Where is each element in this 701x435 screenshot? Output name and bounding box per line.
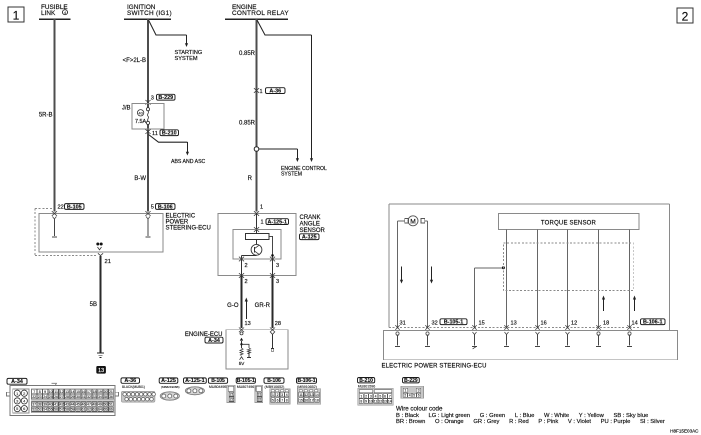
svg-text:14: 14 bbox=[315, 393, 319, 397]
svg-text:6: 6 bbox=[384, 395, 386, 399]
svg-text:12: 12 bbox=[60, 390, 64, 394]
svg-text:A-34: A-34 bbox=[11, 379, 23, 385]
svg-text:4: 4 bbox=[409, 394, 411, 398]
svg-text:14: 14 bbox=[632, 321, 638, 327]
svg-text:LINK: LINK bbox=[41, 10, 56, 17]
svg-text:8: 8 bbox=[286, 399, 288, 403]
svg-text:A-36: A-36 bbox=[269, 88, 281, 94]
svg-text:2: 2 bbox=[365, 395, 367, 399]
svg-text:12: 12 bbox=[571, 321, 577, 327]
svg-text:2: 2 bbox=[682, 9, 689, 23]
svg-text:21: 21 bbox=[105, 259, 111, 265]
svg-text:61: 61 bbox=[82, 408, 86, 412]
svg-text:17: 17 bbox=[87, 390, 91, 394]
svg-text:J/B: J/B bbox=[122, 106, 131, 112]
svg-text:CRANK: CRANK bbox=[300, 215, 321, 221]
svg-text:0.85R: 0.85R bbox=[239, 121, 256, 127]
svg-text:62: 62 bbox=[87, 408, 91, 412]
svg-text:14: 14 bbox=[71, 390, 75, 394]
svg-text:3: 3 bbox=[418, 389, 420, 393]
svg-text:18: 18 bbox=[603, 321, 609, 327]
svg-text:2: 2 bbox=[404, 394, 406, 398]
svg-text:Wire colour code: Wire colour code bbox=[396, 406, 443, 413]
svg-text:2: 2 bbox=[277, 393, 279, 397]
svg-text:8: 8 bbox=[360, 400, 362, 404]
svg-text:16: 16 bbox=[304, 399, 308, 403]
svg-text:B-105: B-105 bbox=[67, 204, 82, 210]
svg-text:11: 11 bbox=[299, 393, 303, 397]
svg-text:44: 44 bbox=[71, 403, 75, 407]
svg-text:25: 25 bbox=[49, 395, 53, 399]
svg-text:30: 30 bbox=[76, 395, 80, 399]
svg-text:M: M bbox=[410, 218, 416, 225]
svg-text:28: 28 bbox=[65, 395, 69, 399]
svg-text:1: 1 bbox=[404, 389, 406, 393]
svg-text:MU804495: MU804495 bbox=[209, 385, 227, 389]
svg-text:60: 60 bbox=[76, 408, 80, 412]
svg-text:B-105: B-105 bbox=[211, 378, 225, 384]
svg-text:13: 13 bbox=[511, 321, 517, 327]
svg-text:7: 7 bbox=[389, 395, 391, 399]
svg-text:ANGLE: ANGLE bbox=[300, 221, 320, 227]
svg-text:SENSOR: SENSOR bbox=[300, 228, 326, 234]
svg-text:45: 45 bbox=[76, 403, 80, 407]
svg-text:32: 32 bbox=[87, 395, 91, 399]
svg-text:13: 13 bbox=[383, 400, 387, 404]
svg-text:11: 11 bbox=[374, 400, 378, 404]
svg-text:A-125-1: A-125-1 bbox=[185, 378, 204, 384]
svg-text:9: 9 bbox=[44, 390, 46, 394]
svg-text:31: 31 bbox=[258, 393, 262, 397]
svg-text:7: 7 bbox=[281, 399, 283, 403]
svg-text:17: 17 bbox=[310, 399, 314, 403]
svg-text:58: 58 bbox=[65, 408, 69, 412]
svg-text:63: 63 bbox=[93, 408, 97, 412]
svg-text:15: 15 bbox=[299, 399, 303, 403]
svg-text:6: 6 bbox=[418, 394, 420, 398]
svg-text:CONTROL RELAY: CONTROL RELAY bbox=[232, 10, 289, 17]
svg-text:6: 6 bbox=[277, 399, 279, 403]
svg-text:21: 21 bbox=[109, 390, 113, 394]
svg-text:64: 64 bbox=[98, 408, 102, 412]
svg-text:32: 32 bbox=[432, 321, 438, 327]
svg-text:16: 16 bbox=[82, 390, 86, 394]
svg-text:B-210: B-210 bbox=[162, 130, 177, 136]
svg-text:3: 3 bbox=[276, 279, 279, 285]
svg-text:B : Black LG : Light gree: B : Black LG : Light green G : Green L :… bbox=[396, 413, 648, 419]
svg-text:43: 43 bbox=[65, 403, 69, 407]
svg-text:46: 46 bbox=[82, 403, 86, 407]
svg-text:B-106: B-106 bbox=[158, 204, 173, 210]
svg-text:32: 32 bbox=[258, 398, 262, 402]
svg-text:15: 15 bbox=[479, 321, 485, 327]
svg-text:22: 22 bbox=[230, 398, 234, 402]
svg-text:R: R bbox=[248, 176, 253, 182]
svg-text:B-210: B-210 bbox=[359, 378, 373, 384]
svg-text:11: 11 bbox=[54, 390, 58, 394]
svg-text:B-106-1: B-106-1 bbox=[643, 319, 662, 325]
svg-text:42: 42 bbox=[60, 403, 64, 407]
svg-text:B-W: B-W bbox=[134, 176, 146, 182]
svg-text:1: 1 bbox=[272, 393, 274, 397]
svg-text:51: 51 bbox=[109, 403, 113, 407]
svg-text:22: 22 bbox=[32, 395, 36, 399]
svg-text:BR : Brown O : Orange: BR : Brown O : Orange GR : Grey R : Red … bbox=[396, 419, 665, 425]
svg-text:31: 31 bbox=[400, 321, 406, 327]
svg-text:13: 13 bbox=[65, 390, 69, 394]
svg-text:2: 2 bbox=[245, 263, 248, 269]
svg-text:3: 3 bbox=[281, 393, 283, 397]
svg-text:12: 12 bbox=[304, 393, 308, 397]
svg-text:41: 41 bbox=[54, 403, 58, 407]
svg-text:53: 53 bbox=[38, 408, 42, 412]
svg-text:3: 3 bbox=[370, 395, 372, 399]
svg-text:15: 15 bbox=[76, 390, 80, 394]
svg-text:34: 34 bbox=[98, 395, 102, 399]
svg-text:57: 57 bbox=[60, 408, 64, 412]
svg-text:B-106: B-106 bbox=[267, 378, 281, 384]
svg-text:B-229: B-229 bbox=[158, 95, 173, 101]
svg-text:1: 1 bbox=[360, 395, 362, 399]
svg-text:7.5A: 7.5A bbox=[135, 119, 146, 125]
svg-text:37: 37 bbox=[32, 403, 36, 407]
svg-text:29: 29 bbox=[71, 395, 75, 399]
svg-text:14: 14 bbox=[388, 400, 392, 404]
svg-text:23: 23 bbox=[38, 395, 42, 399]
svg-text:21: 21 bbox=[230, 393, 234, 397]
svg-text:<F>2L-B: <F>2L-B bbox=[123, 58, 146, 64]
svg-text:10: 10 bbox=[369, 400, 373, 404]
svg-text:8: 8 bbox=[39, 390, 41, 394]
svg-text:B-105-1: B-105-1 bbox=[237, 378, 255, 384]
svg-text:27: 27 bbox=[60, 395, 64, 399]
svg-text:1: 1 bbox=[261, 220, 264, 226]
svg-text:4: 4 bbox=[286, 393, 288, 397]
svg-text:52: 52 bbox=[32, 408, 36, 412]
svg-text:50: 50 bbox=[103, 403, 107, 407]
svg-text:55: 55 bbox=[49, 408, 53, 412]
svg-text:7: 7 bbox=[33, 390, 35, 394]
svg-text:22: 22 bbox=[58, 204, 64, 210]
svg-text:66: 66 bbox=[109, 408, 113, 412]
svg-text:5: 5 bbox=[272, 399, 274, 403]
svg-text:SYSTEM: SYSTEM bbox=[175, 56, 198, 62]
svg-text:5: 5 bbox=[379, 395, 381, 399]
svg-text:4: 4 bbox=[375, 395, 377, 399]
svg-text:12: 12 bbox=[378, 400, 382, 404]
svg-text:5: 5 bbox=[151, 204, 154, 210]
svg-text:13: 13 bbox=[310, 393, 314, 397]
svg-text:(MB821906B): (MB821906B) bbox=[161, 385, 180, 389]
svg-text:1: 1 bbox=[13, 8, 20, 22]
svg-text:B-106-1: B-106-1 bbox=[297, 378, 315, 384]
svg-text:A-34: A-34 bbox=[208, 338, 220, 344]
svg-text:48: 48 bbox=[93, 403, 97, 407]
svg-text:35: 35 bbox=[103, 395, 107, 399]
svg-text:3: 3 bbox=[151, 95, 154, 101]
svg-text:9: 9 bbox=[365, 400, 367, 404]
svg-text:40: 40 bbox=[49, 403, 53, 407]
svg-text:GR-R: GR-R bbox=[255, 303, 271, 309]
svg-text:18: 18 bbox=[315, 399, 319, 403]
svg-text:SWITCH (IG1): SWITCH (IG1) bbox=[127, 10, 172, 17]
svg-text:STEERING-ECU: STEERING-ECU bbox=[166, 225, 211, 231]
svg-text:56: 56 bbox=[54, 408, 58, 412]
svg-text:1: 1 bbox=[260, 204, 263, 210]
svg-text:10: 10 bbox=[49, 390, 53, 394]
svg-text:5R-B: 5R-B bbox=[39, 113, 53, 119]
svg-text:11: 11 bbox=[152, 131, 158, 137]
svg-text:A-36: A-36 bbox=[124, 378, 136, 384]
svg-text:MU807496: MU807496 bbox=[237, 385, 255, 389]
svg-text:47: 47 bbox=[87, 403, 91, 407]
svg-text:31: 31 bbox=[82, 395, 86, 399]
svg-text:38: 38 bbox=[38, 403, 42, 407]
svg-text:19: 19 bbox=[98, 390, 102, 394]
svg-text:SYSTEM: SYSTEM bbox=[281, 172, 302, 178]
svg-text:A-125: A-125 bbox=[161, 378, 176, 384]
svg-text:3: 3 bbox=[276, 263, 279, 269]
svg-text:0.85R: 0.85R bbox=[239, 51, 256, 57]
svg-text:59: 59 bbox=[71, 408, 75, 412]
svg-text:20: 20 bbox=[103, 390, 107, 394]
svg-text:24: 24 bbox=[43, 395, 47, 399]
svg-text:5V: 5V bbox=[239, 361, 246, 366]
svg-text:16: 16 bbox=[541, 321, 547, 327]
svg-text:G-O: G-O bbox=[227, 303, 239, 309]
svg-text:A-125-1: A-125-1 bbox=[268, 219, 287, 225]
svg-text:H8F15E03AC: H8F15E03AC bbox=[670, 429, 699, 434]
svg-text:ELECTRIC POWER STEERING-ECU: ELECTRIC POWER STEERING-ECU bbox=[382, 363, 487, 369]
svg-text:B-105-1: B-105-1 bbox=[444, 319, 463, 325]
svg-text:A-125: A-125 bbox=[302, 234, 317, 240]
svg-text:5B: 5B bbox=[90, 302, 97, 308]
svg-text:18: 18 bbox=[93, 390, 97, 394]
svg-text:39: 39 bbox=[43, 403, 47, 407]
svg-text:65: 65 bbox=[103, 408, 107, 412]
svg-text:1: 1 bbox=[260, 89, 263, 95]
svg-text:13: 13 bbox=[98, 368, 104, 374]
svg-text:2: 2 bbox=[245, 279, 248, 285]
svg-text:49: 49 bbox=[98, 403, 102, 407]
svg-text:36: 36 bbox=[109, 395, 113, 399]
svg-text:26: 26 bbox=[54, 395, 58, 399]
svg-text:B-229: B-229 bbox=[404, 378, 418, 384]
svg-text:54: 54 bbox=[43, 408, 47, 412]
svg-text:TORQUE SENSOR: TORQUE SENSOR bbox=[541, 220, 597, 226]
svg-text:ABS AND ASC: ABS AND ASC bbox=[171, 159, 206, 165]
svg-text:BLACK(MU801): BLACK(MU801) bbox=[122, 385, 145, 389]
svg-text:33: 33 bbox=[93, 395, 97, 399]
svg-text:28: 28 bbox=[275, 321, 281, 327]
svg-text:5: 5 bbox=[413, 394, 415, 398]
svg-text:13: 13 bbox=[245, 321, 251, 327]
